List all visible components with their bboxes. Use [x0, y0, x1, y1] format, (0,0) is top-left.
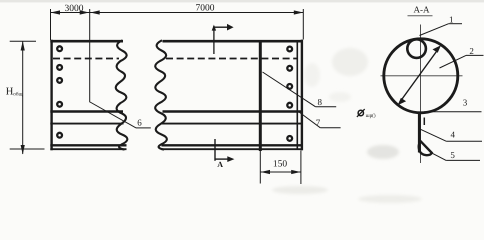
svg-text:150: 150: [273, 160, 288, 170]
svg-text:А: А: [217, 160, 223, 169]
svg-text:4: 4: [451, 129, 456, 139]
svg-text:8: 8: [318, 97, 323, 107]
svg-text:3000: 3000: [65, 4, 84, 14]
svg-text:1: 1: [449, 14, 454, 24]
svg-text:6: 6: [137, 117, 142, 127]
svg-text:5: 5: [450, 150, 455, 160]
svg-text:шр(): шр(): [366, 113, 376, 119]
svg-text:7000: 7000: [196, 4, 215, 14]
svg-text:3: 3: [463, 98, 468, 108]
svg-text:2: 2: [469, 46, 474, 56]
svg-text:А-А: А-А: [414, 5, 430, 15]
svg-text:общ: общ: [13, 91, 22, 97]
svg-text:7: 7: [316, 117, 321, 127]
